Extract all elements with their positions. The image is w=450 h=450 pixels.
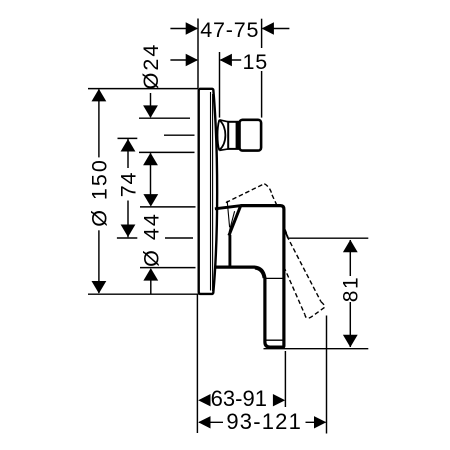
svg-text:15: 15 [243, 50, 269, 74]
svg-text:Ø 44: Ø 44 [140, 212, 164, 267]
svg-text:Ø 150: Ø 150 [88, 158, 112, 227]
svg-text:93-121: 93-121 [226, 409, 302, 434]
svg-text:47-75: 47-75 [200, 18, 259, 42]
svg-text:81: 81 [340, 276, 363, 302]
svg-text:63-91: 63-91 [211, 386, 267, 411]
svg-text:74: 74 [117, 172, 141, 198]
svg-text:Ø24: Ø24 [139, 43, 163, 90]
